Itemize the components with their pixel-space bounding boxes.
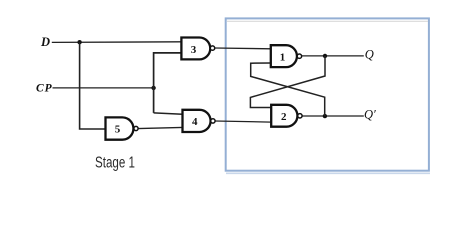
svg-text:CP: CP <box>36 83 53 95</box>
svg-text:1: 1 <box>280 52 286 64</box>
wire gate5 output to gate4 <box>138 127 183 128</box>
wire gate4 output to gate2 <box>215 121 271 122</box>
latch enclosure box <box>226 18 430 173</box>
node Q' junction <box>323 114 327 118</box>
svg-text:4: 4 <box>192 116 198 128</box>
wire gate3 output to gate1 <box>215 47 271 50</box>
svg-text:D: D <box>40 35 50 49</box>
node CP junction <box>151 86 155 90</box>
NAND gate 2 <box>271 105 302 127</box>
node D junction <box>77 40 81 44</box>
svg-text:Q: Q <box>365 48 374 62</box>
svg-text:Q′: Q′ <box>364 108 376 122</box>
wire CP branch up to gate3 <box>154 53 182 113</box>
wire cross feedback Q to gate2 input <box>250 56 325 108</box>
NAND gate 3 <box>181 38 214 60</box>
wire CP input <box>53 87 154 89</box>
wire cross feedback Q' to gate1 input <box>251 63 325 116</box>
wire Q output line <box>302 55 364 57</box>
NAND gate 1 <box>271 45 302 67</box>
wire CP branch to gate4 <box>154 113 183 114</box>
svg-text:5: 5 <box>115 124 121 136</box>
svg-text:2: 2 <box>281 111 287 123</box>
NAND gate 4 <box>183 110 216 132</box>
wire D branch down to gate5 <box>80 42 106 129</box>
node Q junction <box>323 54 327 58</box>
wire D input <box>52 41 182 44</box>
svg-text:Stage 1: Stage 1 <box>95 155 135 172</box>
wire Q' output line <box>302 115 364 117</box>
svg-text:3: 3 <box>191 44 197 56</box>
NAND gate 5 <box>106 117 139 139</box>
